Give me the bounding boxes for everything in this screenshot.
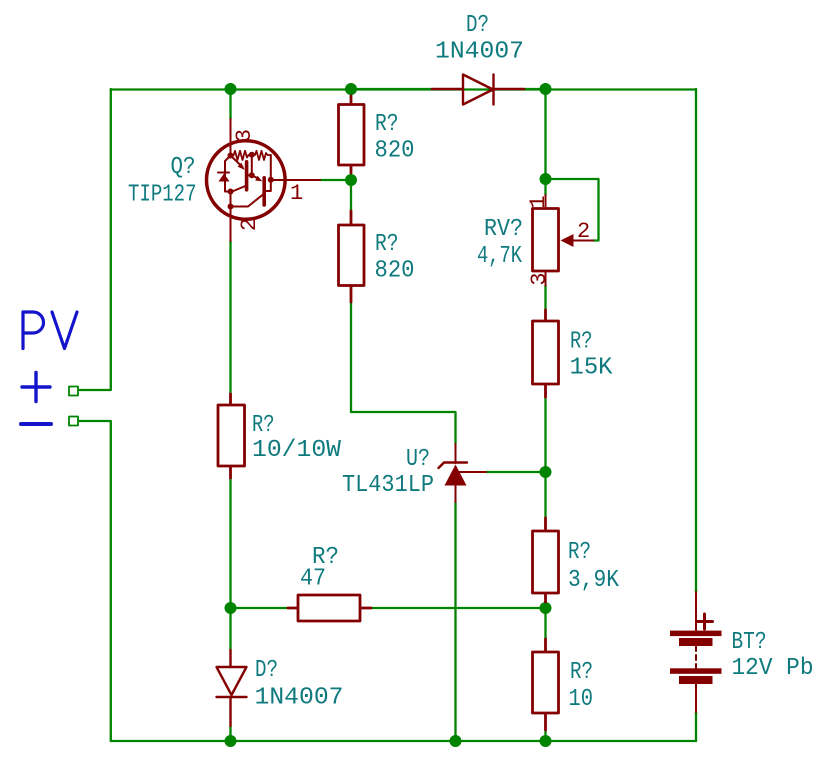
wire node to bottom diode — [229, 608, 231, 650]
wire transistor emitter branch — [229, 89, 231, 119]
Q1 base bar — [245, 162, 249, 190]
Q1 base connection — [248, 174, 251, 176]
svg-text:D?: D? — [466, 12, 489, 39]
svg-text:Q?: Q? — [171, 154, 196, 181]
resistor R? 820 (upper) — [339, 96, 365, 173]
RV body — [533, 209, 559, 272]
diode D? 1N4007 bottom — [217, 650, 247, 726]
wire base node to R820b — [350, 180, 352, 211]
transistor body circle — [207, 141, 286, 220]
resistor R? 3,9K — [533, 518, 559, 602]
Q1 emitter diagonal with arrow — [231, 156, 243, 168]
svg-text:R?: R? — [252, 412, 275, 439]
potentiometer RV? 4,7K — [526, 195, 593, 286]
svg-text:1N4007: 1N4007 — [255, 685, 344, 712]
battery plate long (cell 2 +) — [670, 668, 722, 674]
wire TL431 anode down to bottom rail — [454, 502, 456, 741]
wire bottom rail — [111, 740, 696, 742]
wire right rail — [695, 89, 697, 592]
RV wiper arrow — [561, 234, 574, 247]
svg-text:1N4007: 1N4007 — [435, 39, 524, 66]
RV pin1 lead — [545, 195, 547, 209]
wire R15K to divider node — [544, 397, 546, 472]
internal resistor 1 (zigzag) — [231, 151, 249, 160]
Q2 base bar — [262, 178, 266, 205]
TL431 cathode lead — [455, 444, 457, 463]
svg-text:U?: U? — [406, 446, 430, 473]
internal resistor 2 (zigzag) — [252, 151, 271, 160]
TL431 ref lead — [458, 471, 486, 473]
base pin lead (right, pin 1) — [271, 179, 320, 181]
TL431 cathode bar with tick — [439, 463, 468, 469]
svg-text:R?: R? — [375, 231, 399, 258]
svg-text:RV?: RV? — [484, 216, 523, 243]
wire base pin to node — [320, 179, 351, 181]
wire R 10/10W to node row — [229, 478, 231, 608]
diode D? 1N4007 top — [432, 75, 524, 105]
wire top rail diode right — [524, 88, 546, 90]
shunt regulator U? TL431LP — [439, 444, 487, 502]
svg-text:BT?: BT? — [732, 629, 767, 656]
svg-text:820: 820 — [375, 258, 415, 285]
internal node dots — [228, 152, 274, 210]
TL431 triangle — [445, 465, 467, 486]
resistor R? 15K — [533, 310, 559, 397]
emitter pin lead (top, pin 3) — [230, 119, 232, 241]
internal right vertical (base chain) — [266, 155, 271, 191]
wire R820a to base node — [350, 173, 352, 180]
wire top rail — [111, 88, 696, 90]
battery plus marker — [698, 614, 713, 629]
wire bottom diode to bottom rail — [229, 726, 231, 741]
svg-text:R?: R? — [568, 539, 591, 566]
wire left rail upper (PV + to top rail) — [78, 89, 111, 390]
svg-text:2: 2 — [577, 219, 590, 244]
battery inter-cell dashed link — [695, 646, 697, 668]
internal diode loop — [218, 156, 231, 192]
Q2 collector diagonal — [231, 195, 264, 207]
transistor Q? TIP127 — [207, 119, 321, 241]
svg-text:2: 2 — [237, 218, 262, 231]
wire node row to R10 — [544, 608, 546, 639]
wire top rail to R820a — [350, 89, 352, 96]
battery bottom lead — [695, 684, 697, 712]
svg-text:3,9K: 3,9K — [568, 567, 620, 594]
label PV (blue text) — [23, 312, 77, 349]
svg-text:TIP127: TIP127 — [128, 182, 197, 209]
RV pin3 lead — [545, 271, 547, 286]
wire R3.9K to node row — [544, 602, 546, 608]
svg-text:10: 10 — [569, 686, 594, 713]
svg-text:R?: R? — [570, 659, 593, 686]
wire RV pin3 to R15K — [544, 286, 546, 311]
battery plate short (cell 2 -) — [679, 676, 713, 684]
internal vertical from mid-resistor node — [251, 155, 253, 175]
Q1 collector diagonal — [231, 186, 247, 193]
PV connector pin - (green square) — [69, 417, 78, 426]
wire R47 row right — [371, 607, 546, 609]
wire R10 to bottom rail — [544, 730, 546, 741]
RV wiper lead — [574, 240, 594, 242]
svg-text:D?: D? — [255, 657, 278, 684]
svg-text:R?: R? — [570, 329, 593, 356]
Q2 emitter diagonal with arrow — [252, 175, 259, 179]
resistor R? 820 (lower) — [339, 211, 365, 302]
TL431 anode lead — [455, 485, 457, 502]
wire transistor collector to R 10/10W — [229, 241, 231, 394]
svg-text:10/10W: 10/10W — [252, 437, 342, 464]
resistor R? 10/10W — [218, 394, 245, 478]
battery plate long (cell 1 +) — [670, 631, 722, 637]
wire top rail diode left — [351, 88, 432, 90]
resistor R? 10 — [533, 639, 559, 730]
wire battery bottom to rail — [695, 712, 697, 741]
PV connector pin + (green square) — [69, 387, 78, 396]
svg-text:47: 47 — [300, 566, 326, 593]
battery plate short (cell 1 -) — [679, 638, 713, 646]
label + (PV plus terminal) — [22, 373, 50, 402]
svg-text:1: 1 — [290, 181, 303, 206]
label - (PV minus terminal) — [21, 422, 51, 426]
svg-text:1: 1 — [526, 195, 551, 208]
svg-text:3: 3 — [527, 272, 552, 285]
svg-text:820: 820 — [375, 138, 415, 165]
svg-text:TL431LP: TL431LP — [342, 472, 434, 499]
svg-text:15K: 15K — [570, 355, 614, 382]
wire left rail lower (PV - to bottom rail) — [78, 421, 111, 741]
svg-text:3: 3 — [232, 129, 257, 142]
battery BT? 12V Pb — [670, 592, 722, 712]
wire TL431 ref to divider node — [486, 471, 546, 473]
svg-text:12V Pb: 12V Pb — [732, 655, 814, 682]
resistor R? 47 (horizontal) — [288, 595, 371, 621]
svg-text:R?: R? — [375, 111, 399, 138]
internal diode triangle — [219, 174, 230, 182]
svg-text:4,7K: 4,7K — [477, 243, 522, 270]
wire R47 row left — [231, 607, 289, 609]
wire divider node to R3.9K — [544, 472, 546, 518]
wire right column top to RV — [544, 89, 546, 195]
battery top lead — [695, 592, 697, 631]
wire RV wiper loop — [546, 179, 599, 241]
wire R820b to TL431 ref path — [351, 302, 456, 444]
